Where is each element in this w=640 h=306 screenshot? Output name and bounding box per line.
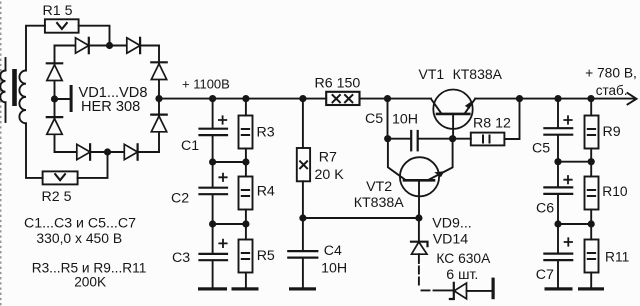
svg-text:R7: R7 [319, 149, 337, 165]
wire R6 to VT1 collector [360, 98, 432, 100]
svg-text:C5: C5 [365, 111, 383, 127]
wire node to VD9 node [303, 217, 419, 219]
wire R10 to rung2r [590, 210, 592, 225]
wire VD14 to terminal [467, 290, 492, 292]
svg-text:R3...R5 и R9...R11: R3...R5 и R9...R11 [32, 261, 147, 276]
svg-text:20 K: 20 K [315, 167, 345, 183]
resistor R8 [471, 133, 505, 146]
wire rung1 left [213, 161, 246, 163]
diode VD bottom-right [124, 144, 137, 159]
chassis terminal bar right [492, 278, 495, 300]
wire rung2r to R11 [590, 224, 592, 240]
wire bridge left node to chassis bar [55, 98, 70, 100]
wire rung2 right ladder [558, 223, 591, 225]
node rail C5 branch [384, 95, 391, 102]
svg-text:С1...С3 и С5...С7: С1...С3 и С5...С7 [24, 216, 136, 232]
wire C1 branch vertical [212, 99, 214, 128]
svg-text:10Н: 10Н [321, 260, 347, 276]
wire dashed continuation [419, 267, 430, 291]
ground bar under C4 [289, 287, 316, 290]
svg-text:R5: R5 [257, 248, 275, 264]
wire rung2 left [213, 223, 246, 225]
svg-text:C5: C5 [532, 141, 550, 157]
svg-text:VD14: VD14 [433, 232, 469, 248]
wire R7 to node [302, 181, 304, 218]
wire rung1 to R4 [245, 162, 247, 177]
node rung2r left [554, 220, 561, 227]
resistor R3 [239, 116, 253, 149]
wire R9 branch vertical [590, 99, 592, 116]
wire bridge right side [158, 46, 160, 153]
wire R4 to rung2 [245, 210, 247, 225]
wire R7 branch vertical [302, 99, 304, 148]
wire rung1r to R10 [590, 162, 592, 177]
svg-text:КС 630А: КС 630А [436, 251, 491, 266]
diode VD bottom-left [77, 144, 90, 159]
wire R8 to rail [504, 99, 519, 139]
svg-text:C3: C3 [172, 250, 190, 266]
wire bridge bottom side [55, 151, 160, 153]
svg-text:R2 5: R2 5 [42, 189, 72, 205]
node rail C1 branch [209, 95, 216, 102]
ground bar under R5 [232, 287, 259, 290]
ground bar under R11 [578, 287, 604, 290]
wire rung2r to C7 [557, 224, 559, 253]
wire VD9 down solid [418, 254, 420, 263]
svg-text:6 шт.: 6 шт. [446, 267, 478, 283]
node rung1r right [588, 158, 595, 165]
svg-text:+ 1100В: + 1100В [182, 77, 230, 92]
wire main rail bridge to R6 [159, 98, 326, 100]
wire R3 to rung1 [245, 149, 247, 163]
wire bridge top side [55, 45, 160, 47]
zener diode VD9 [411, 242, 428, 255]
svg-text:C6: C6 [536, 201, 554, 217]
wire C5b to rung1r [557, 135, 559, 162]
svg-text:R6 150: R6 150 [315, 76, 361, 92]
resistor R9 [585, 116, 599, 149]
node rail R9 branch [587, 95, 594, 102]
resistor R2 [43, 171, 78, 184]
output arrow [628, 93, 637, 104]
svg-text:330,0 х 450 В: 330,0 х 450 В [36, 230, 122, 246]
svg-text:C2: C2 [171, 191, 189, 207]
capacitor C6 [544, 176, 572, 194]
zener diode VD14 [450, 283, 467, 299]
transistor VT1 [431, 90, 475, 139]
svg-text:10Н: 10Н [392, 111, 418, 127]
wire R2 to bridge bottom node [78, 156, 108, 178]
svg-text:200K: 200K [74, 275, 106, 290]
wire C4 to ground [302, 258, 304, 288]
svg-text:R9: R9 [603, 124, 621, 140]
svg-text:C1: C1 [181, 138, 199, 154]
node VT1 base [449, 135, 456, 142]
diode VD left-lower [47, 117, 62, 134]
wire to VD14 [434, 289, 454, 291]
capacitor C1 [200, 116, 228, 135]
svg-text:VD9...: VD9... [432, 215, 471, 231]
node bridge right [155, 95, 162, 102]
svg-text:C7: C7 [536, 267, 554, 283]
transformer T1 core [12, 69, 17, 106]
node rung2 right [242, 220, 249, 227]
resistor R7 [297, 148, 310, 181]
node bridge bottom [104, 148, 111, 155]
wire C5 branch vertical [387, 99, 389, 139]
resistor R10 [585, 177, 599, 210]
resistor R4 [239, 177, 253, 210]
wire C5b branch vertical [557, 99, 559, 128]
capacitor C5 coupling [411, 131, 418, 150]
resistor R5 [239, 240, 253, 273]
svg-text:R10: R10 [602, 184, 628, 199]
transformer T1 primary winding [0, 58, 5, 122]
wire rung1r to C6 [557, 162, 559, 187]
node rung2r right [588, 220, 595, 227]
capacitor C4 [288, 251, 317, 258]
node rung1 right [242, 158, 249, 165]
diode VD top-left [76, 38, 89, 53]
svg-text:R8 12: R8 12 [473, 116, 511, 132]
svg-text:VT2: VT2 [366, 179, 392, 195]
wire C5 to VT1 base node [419, 138, 453, 140]
node rail R7 branch [299, 95, 306, 102]
resistor R6 [326, 92, 359, 105]
svg-text:R4: R4 [257, 184, 275, 200]
wire C3 to ground [212, 261, 214, 288]
node VT2 base / VD9 [415, 214, 422, 221]
wire secondary top to R1 [26, 26, 45, 71]
resistor R11 [585, 240, 599, 273]
wire R5 to ground [245, 273, 247, 288]
svg-text:КТ838А: КТ838А [354, 195, 405, 211]
wire node to C4 [302, 218, 304, 251]
wire VT1 base to R8 [453, 138, 471, 140]
capacitor C5 filter [544, 116, 572, 134]
node rail C5b branch [554, 95, 561, 102]
diode VD left-upper [47, 63, 62, 80]
scan border dots (decorative) [0, 2, 2, 306]
wire R9 to rung1r [590, 149, 592, 162]
wire secondary bottom to R2 [26, 123, 43, 178]
svg-text:VT1: VT1 [419, 66, 445, 82]
svg-text:R11: R11 [605, 250, 629, 265]
node rail R3 branch [242, 95, 249, 102]
wire bridge left side [54, 46, 56, 153]
node rung2 left [209, 220, 216, 227]
diode VD right-lower [151, 115, 166, 132]
capacitor C3 [200, 240, 228, 261]
wire R11 to ground [590, 273, 592, 288]
wire node to C5 [388, 138, 411, 140]
wire C6 to rung2r [557, 194, 559, 224]
diode VD top-right [127, 38, 140, 53]
svg-text:HER 308: HER 308 [81, 99, 140, 115]
resistor R1 [45, 19, 79, 32]
wire VD9 node down [418, 218, 420, 242]
svg-text:стаб.: стаб. [596, 83, 628, 98]
wire R1 to bridge top node [79, 26, 110, 42]
node bridge left [51, 95, 58, 102]
wire rung2 to C3 [212, 224, 214, 253]
ground bar under C7 [545, 287, 573, 290]
wire rung1 right ladder [558, 161, 591, 163]
diode VD right-upper [151, 62, 166, 79]
svg-text:КТ838А: КТ838А [453, 66, 503, 82]
svg-text:R1 5: R1 5 [43, 3, 73, 19]
wire rung2 to R5 [245, 224, 247, 240]
transformer T1 secondary winding [19, 71, 26, 124]
wire C1 to rung1 [212, 136, 214, 163]
wire C2 to rung2 [212, 195, 214, 224]
node R7/C4 [299, 214, 306, 221]
wire C7 to ground [557, 261, 559, 288]
svg-text:C4: C4 [324, 243, 342, 259]
transistor VT2 [388, 139, 453, 218]
ground bar under C3 [198, 287, 227, 290]
svg-text:+ 780 В,: + 780 В, [585, 66, 637, 81]
node rung1r left [554, 158, 561, 165]
node C5 left [384, 135, 391, 142]
capacitor C2 [200, 174, 228, 195]
capacitor C7 [544, 238, 572, 260]
svg-text:R3: R3 [257, 124, 275, 140]
node rail R8 branch [516, 95, 523, 102]
wire VT1 emitter to right [475, 98, 634, 100]
node rung1 left [209, 158, 216, 165]
chassis terminal bar left [70, 85, 73, 112]
node bridge top [106, 42, 113, 49]
wire R3 branch vertical [245, 99, 247, 116]
wire rung1 to C2 [212, 162, 214, 187]
